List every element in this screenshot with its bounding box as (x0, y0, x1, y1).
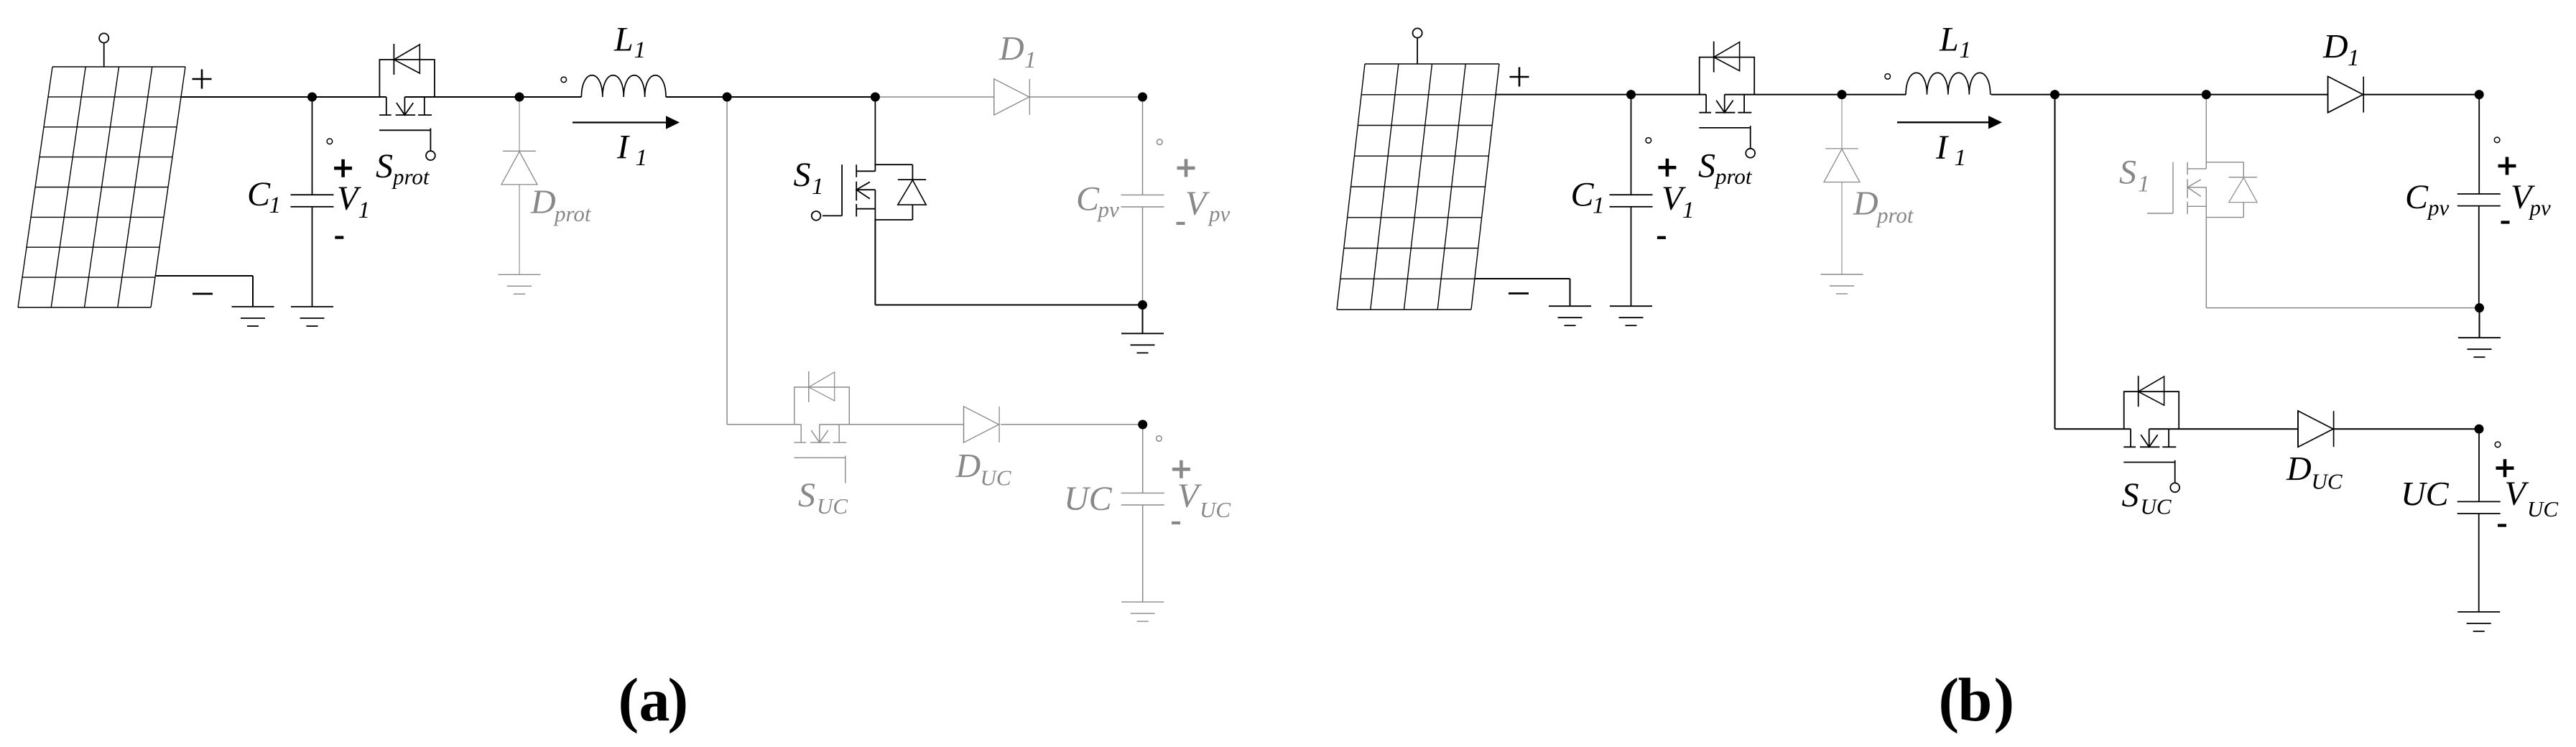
svg-text:1: 1 (636, 145, 648, 171)
svg-text:D: D (2322, 28, 2348, 66)
svg-text:L: L (613, 21, 634, 59)
svg-text:V: V (2505, 475, 2529, 513)
svg-text:D: D (1853, 185, 1878, 223)
svg-text:S: S (798, 476, 815, 514)
svg-text:1: 1 (269, 192, 282, 218)
svg-text:1: 1 (1593, 193, 1605, 219)
svg-text:L: L (1939, 21, 1959, 59)
svg-text:prot: prot (392, 164, 430, 190)
svg-text:UC: UC (2527, 496, 2558, 521)
svg-text:S: S (2119, 154, 2136, 192)
svg-text:prot: prot (1714, 164, 1753, 189)
svg-text:C: C (247, 175, 271, 213)
svg-text:UC: UC (2141, 494, 2172, 519)
svg-text:1: 1 (1682, 198, 1695, 223)
svg-text:S: S (1698, 147, 1715, 185)
svg-text:C: C (2405, 178, 2429, 216)
svg-text:pv: pv (2427, 195, 2450, 221)
svg-text:D: D (955, 447, 981, 486)
svg-text:pv: pv (1097, 197, 1120, 222)
svg-text:S: S (376, 147, 393, 185)
svg-text:C: C (1076, 180, 1100, 218)
svg-text:1: 1 (2348, 45, 2360, 71)
svg-text:S: S (794, 156, 811, 194)
svg-text:): ) (1994, 665, 2015, 734)
svg-text:prot: prot (553, 201, 592, 226)
svg-text:UC: UC (1064, 480, 1113, 518)
svg-text:UC: UC (817, 493, 848, 519)
svg-text:C: C (1571, 176, 1595, 214)
svg-text:prot: prot (1876, 203, 1914, 228)
svg-text:1: 1 (1024, 47, 1037, 73)
svg-text:1: 1 (2138, 172, 2150, 198)
svg-text:UC: UC (981, 465, 1011, 491)
svg-text:1: 1 (358, 198, 371, 223)
svg-text:1: 1 (1955, 145, 1967, 171)
svg-text:b: b (1958, 665, 1993, 734)
svg-text:(: ( (1939, 665, 1960, 734)
svg-text:UC: UC (1200, 497, 1231, 522)
svg-text:1: 1 (1960, 37, 1972, 63)
svg-text:D: D (2286, 450, 2312, 488)
svg-text:V: V (1185, 185, 1210, 223)
svg-text:V: V (1177, 477, 1202, 515)
svg-text:D: D (999, 30, 1024, 68)
svg-text:1: 1 (812, 174, 824, 200)
svg-text:(: ( (618, 665, 639, 734)
svg-text:pv: pv (2529, 195, 2552, 221)
svg-text:): ) (668, 665, 689, 734)
svg-text:UC: UC (2312, 469, 2343, 494)
svg-text:S: S (2122, 476, 2139, 514)
svg-text:UC: UC (2401, 475, 2450, 514)
svg-text:I: I (1935, 129, 1949, 167)
svg-text:a: a (639, 665, 670, 734)
svg-text:I: I (616, 129, 630, 167)
svg-text:1: 1 (634, 37, 647, 63)
svg-text:D: D (530, 183, 556, 221)
svg-text:pv: pv (1208, 201, 1231, 226)
